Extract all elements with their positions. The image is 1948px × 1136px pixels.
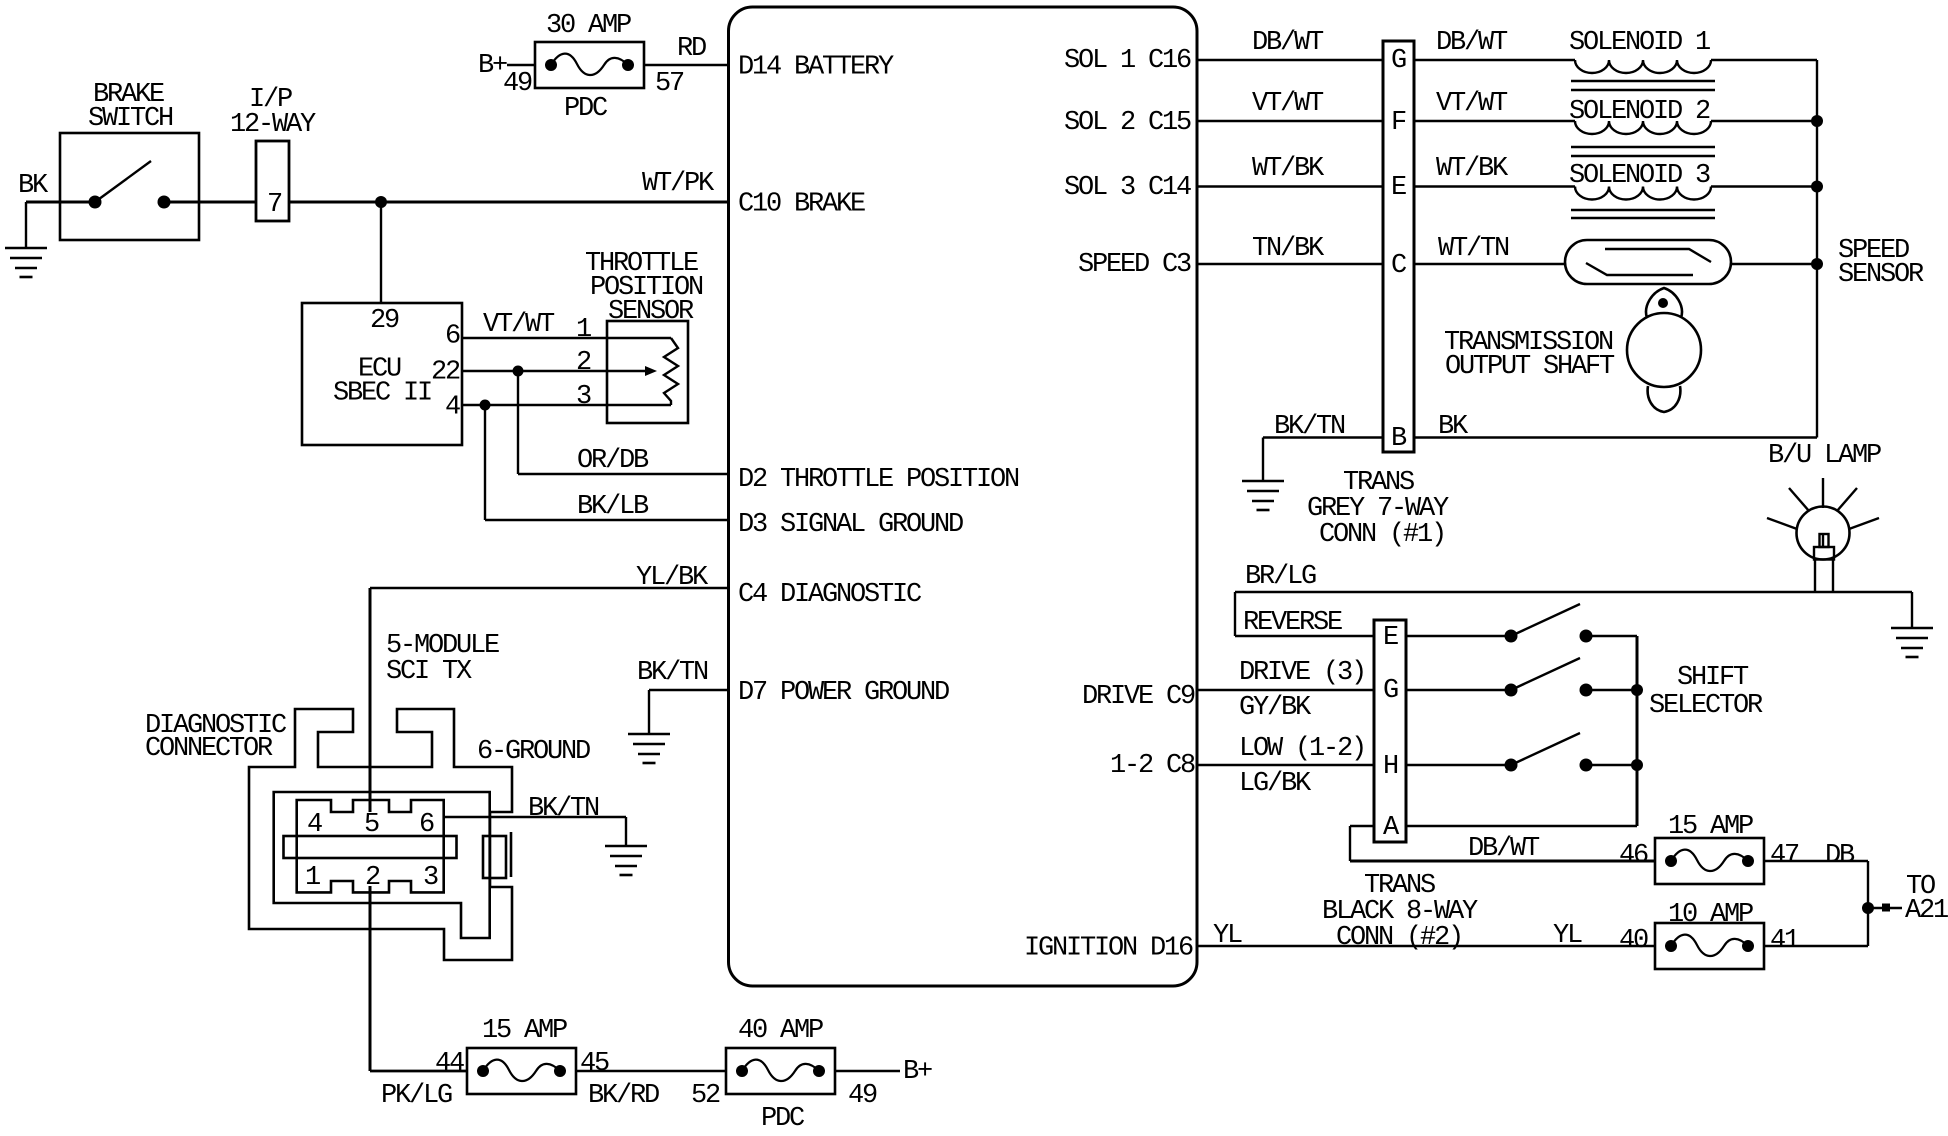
svg-text:40 AMP: 40 AMP	[738, 1016, 823, 1046]
svg-text:PK/LG: PK/LG	[381, 1081, 452, 1111]
lamp base	[1814, 547, 1834, 560]
svg-text:15 AMP: 15 AMP	[482, 1016, 567, 1046]
svg-text:45: 45	[580, 1049, 609, 1079]
connector #2 E G H A body	[1374, 620, 1406, 842]
switch 2 blade	[1511, 658, 1580, 690]
node junction pin22	[513, 366, 524, 377]
wire speed sensor to bus	[1731, 263, 1817, 265]
wire fuse to B+	[834, 1070, 900, 1072]
wire conn E to switch 1	[1406, 635, 1511, 637]
svg-text:E: E	[1391, 173, 1406, 203]
svg-text:LOW (1-2): LOW (1-2)	[1239, 734, 1365, 764]
label I/P 12-WAY	[230, 85, 316, 140]
svg-text:3: 3	[576, 382, 591, 412]
wire SPEED C3 to conn C	[1197, 263, 1383, 265]
svg-text:BK: BK	[18, 171, 49, 201]
wire A down	[1349, 826, 1351, 861]
svg-text:BK/TN: BK/TN	[528, 794, 599, 824]
svg-text:6-GROUND: 6-GROUND	[477, 737, 590, 767]
wire BK/TN conn B left	[1263, 436, 1383, 438]
wire right bus vertical	[1816, 60, 1818, 438]
svg-text:WT/BK: WT/BK	[1436, 154, 1509, 184]
switch 1 contacts	[1505, 630, 1518, 643]
svg-text:PDC: PDC	[761, 1104, 805, 1134]
svg-text:A21: A21	[1905, 896, 1948, 926]
wire REVERSE to conn E	[1235, 635, 1374, 637]
wire pin22 to TPS wiper	[462, 370, 645, 372]
svg-text:40: 40	[1619, 926, 1648, 956]
label SHIFT SELECTOR	[1649, 663, 1763, 721]
svg-text:BK: BK	[1438, 412, 1469, 442]
transmission output shaft pointer	[1646, 288, 1682, 318]
svg-text:E: E	[1383, 623, 1398, 653]
wire conn F to solenoid 2	[1414, 120, 1575, 122]
svg-text:D7 POWER GROUND: D7 POWER GROUND	[738, 678, 949, 708]
wire DRIVE C9 to conn G	[1197, 689, 1374, 691]
wire conn H to switch 3	[1406, 764, 1511, 766]
solenoid 3 core	[1571, 209, 1715, 211]
svg-text:C10 BRAKE: C10 BRAKE	[738, 190, 865, 220]
svg-text:SOL 2 C15: SOL 2 C15	[1064, 108, 1191, 138]
wire BR/LG down to reverse	[1234, 592, 1236, 636]
svg-text:VT/WT: VT/WT	[483, 310, 555, 340]
svg-text:OUTPUT SHAFT: OUTPUT SHAFT	[1445, 352, 1615, 382]
solenoid 2 core	[1571, 146, 1715, 148]
svg-text:SELECTOR: SELECTOR	[1649, 691, 1763, 721]
ground (B/U lamp)	[1891, 628, 1933, 657]
speed sensor reed bottom	[1586, 263, 1693, 275]
svg-text:SHIFT: SHIFT	[1677, 663, 1749, 693]
label 5-MODULE SCI TX	[386, 631, 499, 687]
diagnostic connector lug line	[510, 832, 513, 877]
svg-text:SWITCH: SWITCH	[88, 104, 173, 134]
switch 3 blade	[1511, 733, 1580, 765]
svg-text:B+: B+	[903, 1057, 932, 1087]
ground (brake switch)	[5, 248, 47, 277]
svg-text:46: 46	[1619, 841, 1648, 871]
ECU SBEC II box	[302, 303, 462, 445]
svg-text:12-WAY: 12-WAY	[230, 110, 316, 140]
wire pin6 to ground	[625, 817, 627, 846]
fuse F1 30 AMP PDC	[535, 42, 644, 88]
svg-text:YL: YL	[1213, 921, 1242, 951]
svg-text:D3 SIGNAL GROUND: D3 SIGNAL GROUND	[738, 510, 963, 540]
svg-text:BK/TN: BK/TN	[637, 658, 708, 688]
svg-text:DB/WT: DB/WT	[1468, 834, 1540, 864]
node bus junction speed	[1811, 258, 1823, 270]
svg-text:22: 22	[431, 358, 460, 388]
TPS resistor zigzag	[664, 338, 678, 405]
wire solenoid 2 to bus	[1711, 120, 1817, 122]
svg-text:30 AMP: 30 AMP	[546, 11, 631, 41]
diagnostic connector inner wall	[274, 792, 490, 938]
svg-text:C: C	[1391, 251, 1407, 281]
wire down from pin4 junction	[484, 405, 486, 520]
speed sensor capsule	[1565, 240, 1731, 284]
svg-text:SPEED C3: SPEED C3	[1078, 250, 1191, 280]
svg-text:SOLENOID 3: SOLENOID 3	[1569, 161, 1710, 191]
svg-text:IGNITION D16: IGNITION D16	[1024, 934, 1193, 964]
svg-text:RD: RD	[677, 34, 706, 64]
label TRANS GREY 7-WAY CONN (#1)	[1307, 468, 1449, 550]
svg-text:44: 44	[435, 1049, 464, 1079]
svg-text:D14 BATTERY: D14 BATTERY	[738, 53, 894, 83]
label SPEED SENSOR	[1838, 236, 1924, 290]
wire BK/TN to ECU D7	[649, 689, 728, 691]
wire B+ to fuse	[507, 64, 535, 66]
svg-text:10 AMP: 10 AMP	[1668, 900, 1753, 930]
brake switch blade	[95, 161, 151, 202]
wire bus return to conn A	[1406, 825, 1637, 827]
svg-text:TN/BK: TN/BK	[1252, 234, 1325, 264]
svg-text:52: 52	[691, 1081, 720, 1111]
wire conn E to solenoid 3	[1414, 185, 1575, 187]
wire DB/WT to fuse 46	[1350, 860, 1655, 863]
wire lamp to ground	[1911, 592, 1913, 628]
svg-text:49: 49	[848, 1081, 877, 1111]
svg-text:LG/BK: LG/BK	[1239, 769, 1312, 799]
wire conn G to solenoid 1	[1414, 59, 1575, 61]
svg-text:57: 57	[655, 69, 684, 99]
wire switch 1 to bus	[1586, 635, 1637, 637]
svg-text:H: H	[1383, 752, 1398, 782]
ECU main box	[729, 7, 1198, 986]
svg-text:1-2 C8: 1-2 C8	[1110, 751, 1195, 781]
ground (diagnostic pin 6)	[605, 846, 647, 875]
svg-text:DRIVE (3): DRIVE (3)	[1239, 658, 1365, 688]
svg-text:G: G	[1391, 46, 1406, 76]
transmission output shaft circle	[1627, 313, 1701, 387]
switch 1 blade	[1511, 604, 1580, 636]
svg-text:2: 2	[576, 348, 591, 378]
wire selector bus vertical	[1636, 636, 1639, 826]
transmission output shaft bottom lug	[1648, 386, 1681, 412]
diagnostic connector key bar	[284, 836, 457, 858]
label TRANSMISSION OUTPUT SHAFT	[1444, 328, 1615, 382]
lamp rays	[1822, 478, 1824, 508]
wire conn B to ground	[1262, 438, 1264, 482]
wiper arrowhead	[645, 366, 657, 376]
wire solenoid 3 to bus	[1711, 185, 1817, 187]
ground (D7 power ground)	[628, 734, 670, 763]
wire 1-2 C8 to conn H	[1197, 764, 1374, 766]
wire BR/LG lamp feed	[1235, 591, 1912, 593]
wire solenoid 1 to bus	[1711, 59, 1817, 61]
svg-text:6: 6	[445, 322, 460, 352]
svg-text:VT/WT: VT/WT	[1436, 89, 1508, 119]
wire fuse44 to fuse52	[576, 1070, 726, 1072]
svg-text:SENSOR: SENSOR	[1838, 260, 1924, 290]
wire switch 2 to bus	[1586, 689, 1637, 691]
svg-text:CONN (#2): CONN (#2)	[1336, 923, 1462, 953]
wire down to diagnostic pin 5	[369, 588, 372, 812]
svg-text:D2 THROTTLE POSITION: D2 THROTTLE POSITION	[738, 465, 1019, 495]
wire switch 3 to bus	[1586, 764, 1637, 766]
wire brake switch to I/P connector	[164, 201, 256, 204]
svg-text:4: 4	[445, 393, 460, 423]
label DIAGNOSTIC CONNECTOR	[145, 711, 287, 764]
connector #1 grey 7-way body	[1383, 41, 1414, 452]
wire OR/DB to ECU D2	[518, 473, 728, 475]
throttle position sensor box	[607, 321, 688, 423]
switch 3 contacts	[1505, 759, 1518, 772]
solenoid 2 coil	[1575, 121, 1711, 134]
label THROTTLE POSITION SENSOR	[585, 249, 703, 327]
wire WT/PK to ECU C10	[289, 201, 728, 204]
wire from pin 2 down	[369, 886, 372, 1071]
wire pin4 to TPS pin3	[462, 404, 671, 406]
svg-text:4: 4	[307, 810, 322, 840]
svg-text:OR/DB: OR/DB	[577, 446, 649, 476]
label TO A21	[1905, 872, 1948, 926]
svg-text:DB/WT: DB/WT	[1436, 28, 1508, 58]
speed sensor reed top	[1605, 249, 1711, 262]
wire YL ignition to fuse 40	[1197, 945, 1655, 947]
svg-text:WT/TN: WT/TN	[1438, 234, 1509, 264]
svg-text:VT/WT: VT/WT	[1252, 89, 1324, 119]
node bus junction sol2	[1811, 115, 1823, 127]
label BRAKE SWITCH	[88, 80, 173, 134]
square bead A21	[1882, 904, 1890, 912]
svg-text:B/U LAMP: B/U LAMP	[1768, 441, 1881, 471]
svg-text:WT/PK: WT/PK	[642, 169, 715, 199]
svg-text:BK/RD: BK/RD	[588, 1081, 659, 1111]
svg-text:BK/TN: BK/TN	[1274, 412, 1345, 442]
wire fuse 41 right	[1764, 945, 1868, 947]
label TRANS BLACK 8-WAY CONN (#2)	[1322, 871, 1478, 953]
svg-text:SOL 3 C14: SOL 3 C14	[1064, 173, 1191, 203]
svg-text:6: 6	[419, 810, 434, 840]
svg-text:1: 1	[576, 315, 591, 345]
svg-text:47: 47	[1770, 841, 1799, 871]
svg-text:29: 29	[370, 306, 399, 336]
wire down from pin22 junction	[517, 371, 519, 474]
fuse F3 40 AMP PDC	[726, 1048, 835, 1094]
svg-text:SOLENOID 1: SOLENOID 1	[1569, 28, 1710, 58]
wire SOL1 C16 to conn G	[1197, 59, 1383, 61]
solenoid 3 coil	[1575, 187, 1711, 200]
diagnostic connector outer housing	[249, 709, 512, 960]
wire conn A stub left	[1350, 825, 1374, 827]
svg-text:REVERSE: REVERSE	[1243, 608, 1342, 638]
wire PK/LG to fuse 44	[370, 1070, 467, 1073]
svg-text:B: B	[1391, 424, 1407, 454]
wire conn C to speed sensor	[1414, 263, 1565, 265]
node junction pin4	[480, 400, 491, 411]
node bus junction sol3	[1811, 181, 1823, 193]
solenoid 1 core	[1571, 80, 1715, 82]
svg-text:2: 2	[365, 863, 380, 893]
svg-text:41: 41	[1770, 926, 1799, 956]
svg-text:DRIVE C9: DRIVE C9	[1082, 682, 1195, 712]
node bus junction switch 2	[1631, 684, 1643, 696]
svg-text:PDC: PDC	[564, 94, 608, 124]
svg-text:SCI TX: SCI TX	[386, 657, 472, 687]
diagnostic connector pin box	[297, 800, 444, 892]
brake switch S1 box	[60, 133, 199, 240]
lamp right leg	[1832, 559, 1834, 592]
wire YL/BK to ECU C4	[370, 587, 728, 589]
svg-text:C4 DIAGNOSTIC: C4 DIAGNOSTIC	[738, 580, 922, 610]
brake switch contacts	[89, 196, 102, 209]
wire to ground	[25, 202, 27, 248]
svg-text:BK/LB: BK/LB	[577, 492, 649, 522]
B/U lamp bulb	[1797, 507, 1850, 560]
svg-text:5: 5	[364, 810, 379, 840]
transmission output shaft dot	[1658, 298, 1668, 308]
wire BK return to conn B	[1414, 436, 1817, 438]
svg-text:3: 3	[423, 863, 438, 893]
connector I/P 12-way pin 7	[256, 141, 289, 221]
svg-text:SBEC II: SBEC II	[333, 379, 431, 409]
ground (conn #1 B)	[1242, 481, 1284, 510]
svg-text:CONNECTOR: CONNECTOR	[145, 734, 273, 764]
node junction A21	[1862, 902, 1874, 914]
svg-text:49: 49	[503, 69, 532, 99]
node bus junction switch 3	[1631, 759, 1643, 771]
svg-text:SENSOR: SENSOR	[608, 297, 694, 327]
fuse F4 15 AMP	[1655, 838, 1764, 884]
svg-text:SOL 1 C16: SOL 1 C16	[1064, 46, 1191, 76]
solenoid 1 coil	[1575, 60, 1711, 73]
wire fuse 47 right	[1764, 860, 1868, 862]
wire BK/LB to ECU D3	[485, 519, 728, 521]
svg-text:SOLENOID 2: SOLENOID 2	[1569, 97, 1710, 127]
wire conn G to switch 2	[1406, 689, 1511, 691]
lamp filament post	[1820, 534, 1829, 547]
svg-text:DB: DB	[1825, 841, 1855, 871]
svg-text:WT/BK: WT/BK	[1252, 154, 1325, 184]
svg-text:YL/BK: YL/BK	[636, 563, 709, 593]
svg-text:YL: YL	[1553, 921, 1582, 951]
wire BK/TN from pin 6	[444, 816, 626, 818]
wire down to A21 node	[1867, 861, 1869, 946]
wire RD fuse to ECU D14	[644, 64, 728, 66]
wire BK feed	[26, 201, 95, 204]
svg-text:G: G	[1383, 676, 1398, 706]
svg-text:1: 1	[305, 863, 320, 893]
lamp left leg	[1814, 559, 1816, 592]
wire junction down to ECU 29	[380, 202, 382, 303]
wire D7 to ground	[648, 690, 650, 734]
node junction brake wire	[375, 196, 387, 208]
svg-text:BR/LG: BR/LG	[1245, 562, 1316, 592]
switch 2 contacts	[1505, 684, 1518, 697]
fuse F5 10 AMP	[1655, 923, 1764, 969]
wire SOL3 C14 to conn E	[1197, 185, 1383, 187]
svg-text:CONN (#1): CONN (#1)	[1319, 520, 1445, 550]
svg-text:7: 7	[267, 190, 282, 220]
wire VT/WT pin6 to TPS pin1	[462, 337, 671, 339]
fuse F2 15 AMP	[467, 1048, 576, 1094]
svg-text:GY/BK: GY/BK	[1239, 693, 1312, 723]
svg-text:F: F	[1391, 108, 1406, 138]
wire SOL2 C15 to conn F	[1197, 120, 1383, 122]
diagnostic connector small lug	[483, 836, 506, 878]
svg-text:DB/WT: DB/WT	[1252, 28, 1324, 58]
wire stub to A21	[1868, 907, 1902, 909]
